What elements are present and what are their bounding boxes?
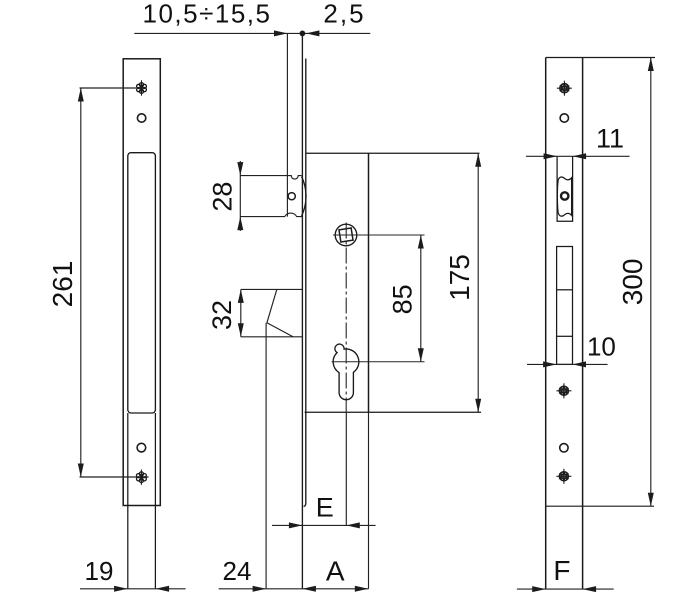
bottom dim line middle — [219, 588, 369, 590]
left bottom hole — [137, 443, 146, 452]
latch bottom edge — [240, 213, 302, 216]
dim 261 bottom extension — [80, 476, 149, 478]
dim 175 line — [477, 153, 479, 412]
svg-text:10,5÷15,5: 10,5÷15,5 — [143, 0, 272, 29]
faceplate front line — [301, 33, 303, 588]
hook diagonal 2 — [267, 323, 293, 337]
latch nose arc — [302, 177, 306, 216]
left faceplate outline — [123, 59, 160, 506]
left top screw — [137, 80, 147, 95]
right plate bottom edge — [546, 505, 654, 507]
svg-text:10: 10 — [587, 332, 616, 362]
dim E line — [272, 524, 376, 526]
svg-text:32: 32 — [207, 300, 237, 330]
latch front pin — [561, 192, 568, 199]
case right extension — [368, 412, 370, 589]
top dim line — [134, 32, 370, 34]
svg-text:A: A — [326, 556, 345, 587]
bolt divider 2 — [557, 335, 573, 337]
hook pocket top edge — [241, 288, 303, 290]
latch front view — [557, 177, 571, 216]
right top hole — [560, 114, 568, 122]
extension cylinder center — [345, 412, 347, 525]
spindle circle — [335, 224, 357, 246]
right top screw — [557, 81, 572, 96]
dim 11 line — [526, 155, 630, 157]
svg-text:F: F — [553, 555, 570, 586]
cylinder crosshair — [332, 361, 425, 363]
dim 10 line — [527, 363, 608, 365]
right bottom screw — [556, 469, 571, 484]
case bottom edge — [305, 411, 481, 413]
right mid screw — [556, 383, 571, 398]
bolt slot — [557, 247, 573, 365]
dim 300 line — [650, 58, 652, 507]
dim 19 line — [80, 588, 186, 590]
extension 24 left — [265, 323, 267, 589]
svg-text:2,5: 2,5 — [323, 0, 365, 29]
dim 261 line — [80, 88, 82, 477]
dim F line — [517, 588, 614, 590]
case right edge — [368, 153, 370, 412]
bolt divider 1 — [557, 289, 573, 291]
svg-text:28: 28 — [207, 182, 237, 212]
latch top edge — [240, 176, 301, 180]
left top hole — [137, 114, 145, 122]
faceplate back line — [304, 59, 306, 507]
svg-text:24: 24 — [223, 556, 252, 586]
svg-text:85: 85 — [388, 284, 418, 314]
right plate right edge — [582, 58, 584, 590]
svg-text:E: E — [316, 493, 334, 523]
svg-text:261: 261 — [47, 261, 78, 308]
center line vertical — [345, 223, 347, 413]
top dim dot — [300, 31, 306, 37]
case top edge — [306, 152, 480, 154]
extension latch left edge — [286, 33, 288, 216]
top dim arrow left — [274, 30, 288, 36]
left bottom screw — [136, 470, 146, 485]
svg-text:175: 175 — [444, 254, 475, 301]
right mid hole — [560, 444, 568, 452]
left inner line lower right — [154, 413, 156, 589]
right plate top edge — [546, 57, 655, 59]
latch cutout — [557, 156, 573, 221]
spindle square — [339, 228, 353, 242]
svg-text:300: 300 — [617, 259, 648, 306]
latch pin — [288, 193, 295, 200]
hook diagonal 1 — [267, 289, 277, 322]
top dim arrow right — [306, 30, 320, 36]
left faceplate slot — [128, 153, 156, 413]
dim 28 line — [239, 161, 241, 231]
dim 261 top extension — [80, 87, 137, 89]
spindle crosshair — [333, 234, 425, 236]
hook pocket bottom edge — [241, 336, 303, 338]
left inner line lower left — [127, 413, 129, 589]
svg-text:19: 19 — [85, 556, 114, 586]
right plate left edge — [545, 58, 547, 590]
euro cylinder — [333, 344, 359, 400]
dim 32 line — [240, 289, 242, 336]
dim 85 line — [420, 235, 422, 362]
svg-text:11: 11 — [596, 124, 624, 154]
